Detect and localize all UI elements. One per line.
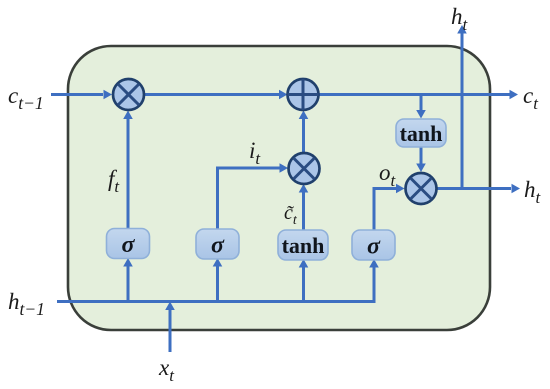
wire h-line up into sigma2 with arrow (213, 258, 223, 302)
wire h-line up into sigma1 with arrow (123, 258, 133, 302)
gate box tanh-top (396, 119, 446, 147)
wire tanh-top down into M3 with arrow (416, 147, 426, 172)
wire junction up to top h_t output with arrow (457, 25, 467, 190)
multiply node M1 (forget gate) (113, 79, 144, 110)
gate box sigma1 (107, 229, 150, 259)
svg-text:σ: σ (122, 232, 136, 258)
wire sigma1 up to M1 with arrow (123, 111, 133, 230)
svg-text:σ: σ (367, 234, 381, 260)
LSTM cell body (68, 46, 490, 330)
svg-text:σ: σ (211, 233, 225, 259)
svg-text:tanh: tanh (282, 233, 325, 258)
wire adder to right edge output c_t with arrow (319, 90, 518, 100)
wire c-line down into tanh-top with arrow (416, 96, 426, 119)
wire x_t input up into h-line with arrow (165, 302, 175, 353)
wire sigma3 up then right into M3 with arrow (374, 184, 405, 230)
wire h-line up into tanh-bottom with arrow (299, 259, 309, 302)
wire h-line end up into sigma3 with arrow (369, 259, 379, 302)
gate box tanh-bottom (278, 230, 328, 260)
svg-text:tanh: tanh (400, 121, 443, 146)
gate box sigma3 (352, 230, 395, 260)
wire M2 up into adder with arrow (299, 111, 309, 154)
wire h-line horizontal from h_t-1 (57, 300, 376, 303)
wire M1 to adder with arrow (145, 90, 288, 100)
svg-text:ht: ht (524, 177, 542, 207)
svg-text:ct−1: ct−1 (8, 83, 44, 113)
svg-text:ht−1: ht−1 (8, 289, 45, 319)
multiply node M2 (input gate) (289, 153, 320, 184)
multiply node M3 (output gate) (406, 173, 437, 204)
svg-text:xt: xt (158, 355, 175, 385)
adder node (plus) (288, 79, 319, 110)
gate box sigma2 (196, 229, 239, 259)
wire sigma2 up then right into M2 with arrow (218, 163, 289, 229)
wire c-line left segment with arrow into multiply M1 (51, 90, 112, 100)
svg-text:ct: ct (523, 83, 539, 113)
wire M3 right to h_t output with arrow (437, 184, 520, 194)
wire tanh-bottom up into M2 with arrow (299, 184, 309, 230)
